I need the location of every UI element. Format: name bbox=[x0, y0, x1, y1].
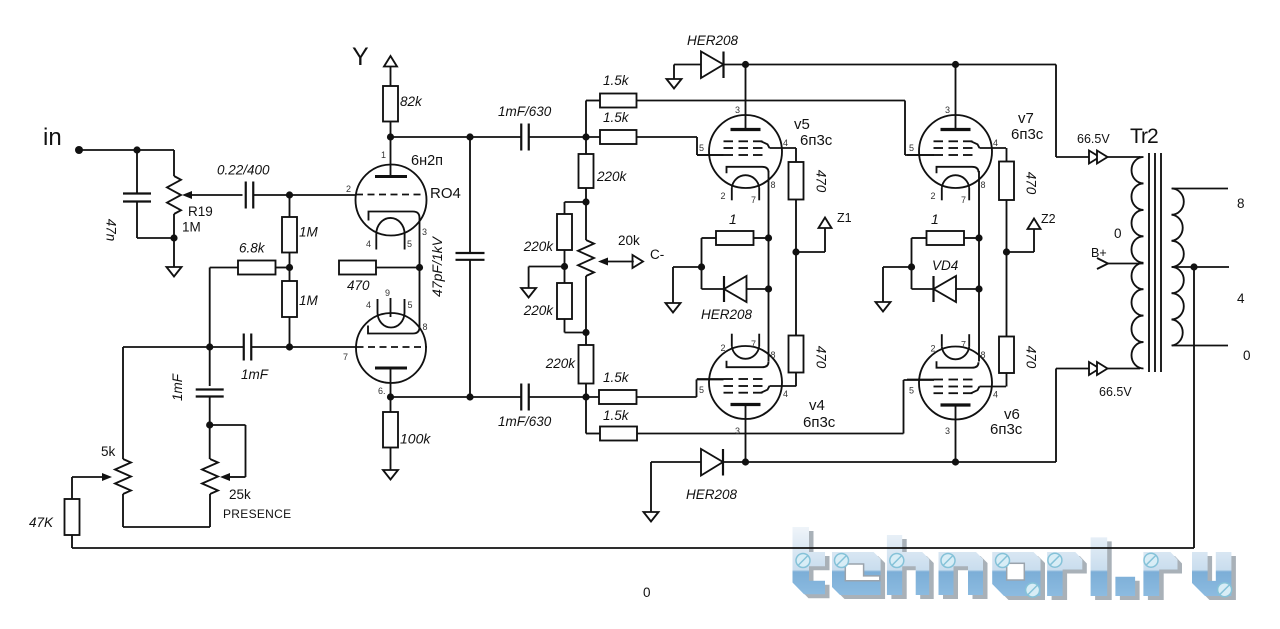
wire bbox=[390, 122, 392, 138]
svg-text:6.8k: 6.8k bbox=[239, 241, 266, 256]
tube V4 bbox=[709, 346, 782, 419]
ground bbox=[876, 302, 891, 312]
wire bbox=[1055, 369, 1057, 463]
tube RO4 grid bbox=[356, 194, 421, 196]
svg-text:1M: 1M bbox=[182, 220, 201, 235]
wire bbox=[912, 237, 927, 239]
svg-text:220k: 220k bbox=[596, 169, 628, 184]
wire bbox=[391, 136, 522, 138]
svg-text:470: 470 bbox=[347, 278, 370, 293]
resistor 1 left bbox=[716, 231, 754, 245]
wire bbox=[956, 288, 979, 290]
tube RO4b envelope bbox=[356, 313, 426, 383]
svg-text:6п3с: 6п3с bbox=[800, 132, 833, 149]
svg-text:47n: 47n bbox=[104, 219, 119, 242]
svg-text:Tr2: Tr2 bbox=[1130, 125, 1158, 148]
capacitor 47pF/1kV bbox=[456, 252, 485, 254]
svg-text:R19: R19 bbox=[188, 204, 213, 219]
svg-text:v5: v5 bbox=[794, 116, 810, 133]
resistor 6.8k bbox=[238, 261, 276, 275]
svg-text:8: 8 bbox=[1237, 196, 1245, 211]
wire bbox=[795, 200, 797, 336]
svg-text:HER208: HER208 bbox=[687, 33, 739, 48]
resistor 470 v5 screen bbox=[789, 162, 804, 200]
capacitor 1mF/630 upper bbox=[520, 124, 522, 151]
wire bbox=[1055, 65, 1057, 158]
resistor 1.5k fourth bbox=[600, 427, 637, 441]
wire bbox=[390, 397, 392, 412]
wire bbox=[795, 148, 797, 162]
svg-text:6п3с: 6п3с bbox=[803, 414, 836, 431]
diode HER208 bottom bbox=[701, 449, 723, 476]
resistor 220k first bbox=[579, 154, 594, 188]
ground bbox=[167, 267, 182, 277]
svg-text:8: 8 bbox=[423, 322, 428, 332]
svg-text:5: 5 bbox=[408, 300, 413, 310]
tube RO4 cathode and pin 3 bbox=[369, 212, 420, 268]
tube RO4b cathode and pin 8 bbox=[368, 268, 420, 334]
wire bbox=[883, 266, 912, 268]
potentiometer R19 wiper arrow bbox=[182, 191, 192, 199]
tube RO4b pin 9 lead bbox=[390, 298, 392, 317]
wire bbox=[673, 266, 702, 268]
svg-text:1.5k: 1.5k bbox=[603, 73, 630, 88]
resistor 220k fourth bbox=[579, 345, 594, 384]
svg-text:7: 7 bbox=[751, 339, 756, 349]
wire bbox=[529, 266, 565, 268]
svg-text:8: 8 bbox=[981, 350, 986, 360]
svg-text:8: 8 bbox=[771, 180, 776, 190]
wire bbox=[747, 288, 769, 290]
svg-text:6п3с: 6п3с bbox=[990, 421, 1023, 438]
node G bbox=[582, 133, 589, 140]
svg-text:0: 0 bbox=[643, 585, 651, 600]
svg-text:3: 3 bbox=[422, 227, 427, 237]
svg-text:3: 3 bbox=[945, 105, 950, 115]
wire bbox=[1006, 200, 1008, 337]
terminal Z2 arrow bbox=[1028, 219, 1041, 230]
svg-text:RO4: RO4 bbox=[430, 185, 461, 202]
resistor 470 v6 screen bbox=[999, 337, 1014, 374]
resistor 1M lower bbox=[282, 281, 297, 317]
wire bbox=[71, 535, 73, 548]
wire bbox=[376, 267, 420, 269]
tube V5 bbox=[709, 115, 782, 188]
svg-text:7: 7 bbox=[751, 195, 756, 205]
wire bbox=[964, 237, 979, 239]
svg-text:6н2п: 6н2п bbox=[411, 153, 443, 169]
wire bbox=[565, 201, 587, 203]
svg-text:1: 1 bbox=[931, 211, 939, 227]
wire bbox=[637, 100, 906, 102]
tube RO4b heater bbox=[378, 313, 405, 328]
potentiometer R19 bbox=[173, 150, 175, 176]
svg-text:5: 5 bbox=[909, 386, 914, 396]
wire bbox=[209, 494, 211, 527]
wire bbox=[754, 237, 769, 239]
svg-text:2: 2 bbox=[931, 344, 936, 354]
svg-text:4: 4 bbox=[783, 389, 788, 399]
wire tap 8 bbox=[1172, 188, 1228, 190]
svg-text:0.22/400: 0.22/400 bbox=[217, 163, 270, 178]
node F bbox=[466, 133, 473, 140]
svg-text:470: 470 bbox=[1024, 346, 1039, 369]
resistor 100k bbox=[383, 412, 398, 448]
node Z2 bbox=[1003, 248, 1010, 255]
svg-text:Z2: Z2 bbox=[1041, 212, 1056, 226]
potentiometer 20k wiper arrow bbox=[598, 258, 608, 266]
wire bbox=[390, 448, 392, 471]
ground bbox=[383, 470, 398, 480]
svg-text:100k: 100k bbox=[400, 431, 431, 447]
tube RO4 pin 4 lead bbox=[375, 234, 377, 250]
svg-text:v4: v4 bbox=[809, 397, 825, 414]
svg-text:3: 3 bbox=[735, 105, 740, 115]
capacitor 1mF vertical bbox=[196, 388, 224, 390]
tube RO4 pin 1 lead bbox=[390, 137, 392, 177]
svg-text:3: 3 bbox=[945, 426, 950, 436]
node V bbox=[698, 263, 705, 270]
resistor 220k third bbox=[557, 283, 572, 319]
wire bbox=[564, 319, 566, 333]
potentiometer 5k wiper arrow bbox=[72, 476, 102, 478]
node A bbox=[133, 146, 140, 153]
wire bbox=[289, 317, 291, 347]
node D bbox=[286, 264, 293, 271]
svg-text:66.5V: 66.5V bbox=[1077, 132, 1110, 146]
svg-text:Z1: Z1 bbox=[837, 211, 852, 225]
svg-text:220k: 220k bbox=[545, 356, 577, 371]
diode HER208 left bbox=[724, 276, 747, 302]
wire 47pF riser bbox=[469, 137, 471, 253]
svg-text:0: 0 bbox=[1243, 348, 1251, 363]
tube RO4b pin 5 lead bbox=[404, 299, 406, 313]
resistor 1.5k first bbox=[600, 94, 637, 108]
ground bbox=[521, 288, 536, 298]
svg-text:1mF/630: 1mF/630 bbox=[498, 414, 552, 429]
svg-text:2: 2 bbox=[931, 191, 936, 201]
wire bbox=[276, 267, 290, 269]
terminal B+ arrow bbox=[1097, 258, 1108, 269]
svg-text:66.5V: 66.5V bbox=[1099, 385, 1132, 399]
resistor 1 right bbox=[927, 231, 965, 245]
svg-text:VD4: VD4 bbox=[932, 258, 958, 273]
svg-text:470: 470 bbox=[814, 170, 829, 193]
terminal C- arrow bbox=[633, 255, 644, 268]
svg-text:470: 470 bbox=[814, 346, 829, 369]
wire bbox=[795, 373, 797, 387]
wire bbox=[585, 397, 587, 434]
svg-text:1M: 1M bbox=[299, 293, 319, 308]
wire tap 4 bbox=[1172, 266, 1229, 268]
svg-text:1: 1 bbox=[381, 150, 386, 160]
tube RO4b pin 6 lead bbox=[390, 368, 392, 397]
svg-text:20k: 20k bbox=[618, 233, 640, 248]
wire bbox=[1006, 373, 1008, 387]
tube V5 anode lead bbox=[745, 65, 747, 130]
watermark tehnari.ru bbox=[793, 527, 1236, 600]
node S bbox=[952, 61, 959, 68]
svg-text:C-: C- bbox=[650, 247, 664, 262]
ground bbox=[666, 303, 681, 313]
terminal Y arrow bbox=[384, 56, 397, 67]
tube RO4 heater bbox=[376, 218, 404, 234]
terminal Z1 arrow bbox=[819, 218, 832, 229]
node O bbox=[582, 198, 589, 205]
svg-text:1.5k: 1.5k bbox=[603, 408, 630, 423]
connector 66.5V top arrows bbox=[1089, 151, 1100, 164]
wire bbox=[210, 424, 246, 426]
node J bbox=[286, 343, 293, 350]
potentiometer 25k bbox=[202, 459, 218, 494]
node E bbox=[387, 133, 394, 140]
node I bbox=[206, 343, 213, 350]
wire bbox=[585, 188, 587, 240]
tube V6 anode lead bbox=[955, 405, 957, 462]
node W bbox=[975, 234, 982, 241]
wire bbox=[585, 384, 587, 398]
node in terminal bbox=[75, 146, 83, 154]
svg-text:0: 0 bbox=[1114, 226, 1122, 241]
svg-text:3: 3 bbox=[735, 426, 740, 436]
wire bbox=[650, 462, 652, 512]
wire bbox=[637, 136, 698, 138]
svg-text:220k: 220k bbox=[523, 239, 555, 254]
node U bbox=[765, 285, 772, 292]
wire bbox=[723, 461, 1056, 463]
diode HER208 top bbox=[701, 52, 724, 79]
svg-text:6п3с: 6п3с bbox=[1011, 126, 1044, 143]
svg-text:4: 4 bbox=[993, 138, 998, 148]
svg-text:1mF: 1mF bbox=[241, 367, 269, 382]
tube RO4b grid bbox=[357, 346, 428, 348]
svg-text:4: 4 bbox=[366, 300, 371, 310]
wire bbox=[253, 194, 356, 196]
transformer Tr2 secondary bbox=[1172, 189, 1184, 346]
transformer Tr2 primary bbox=[1131, 157, 1143, 369]
svg-text:6.: 6. bbox=[378, 386, 386, 396]
tube RO4 pin 5 lead bbox=[404, 234, 406, 250]
capacitor 0.22/400 bbox=[245, 182, 247, 209]
svg-text:in: in bbox=[43, 124, 62, 151]
svg-text:7: 7 bbox=[343, 352, 348, 362]
node N bbox=[582, 393, 589, 400]
tube V7 bbox=[919, 115, 992, 188]
node AB bbox=[952, 458, 959, 465]
potentiometer 20k bbox=[578, 240, 594, 276]
svg-text:4: 4 bbox=[993, 390, 998, 400]
svg-text:HER208: HER208 bbox=[701, 307, 753, 322]
capacitor 1mF coupling bbox=[243, 334, 245, 361]
wire bbox=[209, 397, 211, 460]
wire bbox=[1006, 148, 1008, 162]
node Q bbox=[582, 329, 589, 336]
svg-text:470: 470 bbox=[1024, 172, 1039, 195]
wire bbox=[651, 461, 701, 463]
svg-text:25k: 25k bbox=[229, 487, 251, 502]
wire bbox=[289, 195, 291, 217]
wire bbox=[702, 237, 717, 239]
resistor 470 anode bbox=[339, 261, 376, 275]
svg-text:1.5k: 1.5k bbox=[603, 110, 630, 125]
tube V6 bbox=[919, 347, 992, 420]
node P bbox=[561, 263, 568, 270]
node B bbox=[170, 234, 177, 241]
svg-text:Y: Y bbox=[352, 43, 369, 71]
svg-text:5: 5 bbox=[699, 143, 704, 153]
potentiometer 5k bbox=[115, 459, 131, 494]
svg-text:2: 2 bbox=[721, 343, 726, 353]
resistor 82k bbox=[383, 86, 398, 122]
wire bbox=[289, 268, 291, 282]
node M bbox=[466, 393, 473, 400]
wire bbox=[796, 251, 825, 253]
tube RO4b pin 4 lead bbox=[377, 299, 379, 313]
resistor 470 v7 screen bbox=[999, 162, 1014, 201]
node C bbox=[286, 191, 293, 198]
svg-text:5: 5 bbox=[699, 385, 704, 395]
svg-text:1mF/630: 1mF/630 bbox=[498, 104, 552, 119]
wire bbox=[1108, 263, 1144, 265]
transformer Tr2 core bbox=[1148, 153, 1150, 372]
node X bbox=[975, 285, 982, 292]
connector 66.5V bottom arrows bbox=[1089, 362, 1100, 375]
svg-text:5: 5 bbox=[909, 143, 914, 153]
node Y2 bbox=[908, 263, 915, 270]
svg-text:1.5k: 1.5k bbox=[603, 370, 630, 385]
potentiometer 25k wiper arrow bbox=[220, 473, 230, 481]
node AA bbox=[742, 458, 749, 465]
tube V4 anode lead bbox=[745, 405, 747, 463]
wire bbox=[564, 250, 566, 283]
resistor 1M upper bbox=[282, 217, 297, 253]
tube RO4 envelope bbox=[356, 165, 427, 236]
wire bbox=[123, 346, 244, 348]
node T bbox=[765, 234, 772, 241]
wire bbox=[136, 150, 138, 194]
svg-text:82k: 82k bbox=[400, 94, 423, 109]
wire bbox=[1007, 251, 1035, 253]
resistor 47K bbox=[65, 499, 80, 535]
svg-text:5: 5 bbox=[407, 239, 412, 249]
capacitor 1mF/630 lower bbox=[520, 384, 522, 411]
ground bbox=[644, 512, 659, 522]
wire bbox=[173, 238, 175, 267]
node AC bbox=[1190, 263, 1197, 270]
wire bbox=[289, 253, 291, 268]
svg-text:8: 8 bbox=[771, 350, 776, 360]
svg-text:220k: 220k bbox=[523, 303, 555, 318]
svg-text:47pF/1kV: 47pF/1kV bbox=[429, 235, 445, 297]
wire bbox=[585, 137, 587, 154]
diode VD4 bbox=[934, 276, 957, 302]
wire bbox=[71, 477, 73, 499]
ground bbox=[667, 79, 682, 89]
wire bbox=[637, 396, 697, 398]
svg-text:2: 2 bbox=[346, 184, 351, 194]
tube RO4 anode bbox=[375, 175, 407, 178]
node K bbox=[206, 421, 213, 428]
wire feedback riser bbox=[1193, 267, 1195, 548]
svg-text:4: 4 bbox=[1237, 291, 1245, 306]
wire bbox=[724, 64, 1057, 66]
tube RO4b anode bbox=[375, 367, 407, 370]
resistor 470 v4 screen bbox=[789, 336, 804, 373]
node L bbox=[387, 393, 394, 400]
wire bbox=[585, 276, 587, 345]
svg-text:8: 8 bbox=[981, 180, 986, 190]
svg-text:1mF: 1mF bbox=[170, 373, 185, 401]
wire tap 0 bbox=[1172, 345, 1228, 347]
node H bbox=[416, 264, 423, 271]
svg-text:PRESENCE: PRESENCE bbox=[223, 507, 291, 521]
tube V7 anode lead bbox=[955, 65, 957, 130]
svg-text:4: 4 bbox=[783, 138, 788, 148]
svg-text:5k: 5k bbox=[101, 444, 116, 459]
svg-text:9: 9 bbox=[385, 288, 390, 298]
wire bbox=[674, 64, 701, 66]
svg-text:1: 1 bbox=[729, 211, 737, 227]
wire v7-v6 cathode bus bbox=[978, 171, 980, 362]
wire bbox=[79, 149, 174, 151]
wire v5-v4 cathode bus bbox=[768, 171, 770, 362]
svg-text:47K: 47K bbox=[29, 515, 54, 530]
wire bbox=[391, 396, 522, 398]
node Z1 bbox=[792, 248, 799, 255]
resistor 1.5k second bbox=[600, 130, 637, 144]
svg-text:1M: 1M bbox=[299, 225, 319, 240]
svg-text:HER208: HER208 bbox=[686, 487, 738, 502]
wire bbox=[637, 433, 904, 435]
svg-text:4: 4 bbox=[366, 239, 371, 249]
svg-text:7: 7 bbox=[961, 195, 966, 205]
resistor 220k second bbox=[557, 214, 572, 250]
svg-text:2: 2 bbox=[721, 191, 726, 201]
resistor 1.5k third bbox=[599, 390, 637, 404]
wire bbox=[122, 347, 124, 459]
svg-text:v7: v7 bbox=[1018, 110, 1034, 127]
svg-text:7: 7 bbox=[961, 340, 966, 350]
capacitor 47n bbox=[123, 192, 151, 194]
node R bbox=[742, 61, 749, 68]
